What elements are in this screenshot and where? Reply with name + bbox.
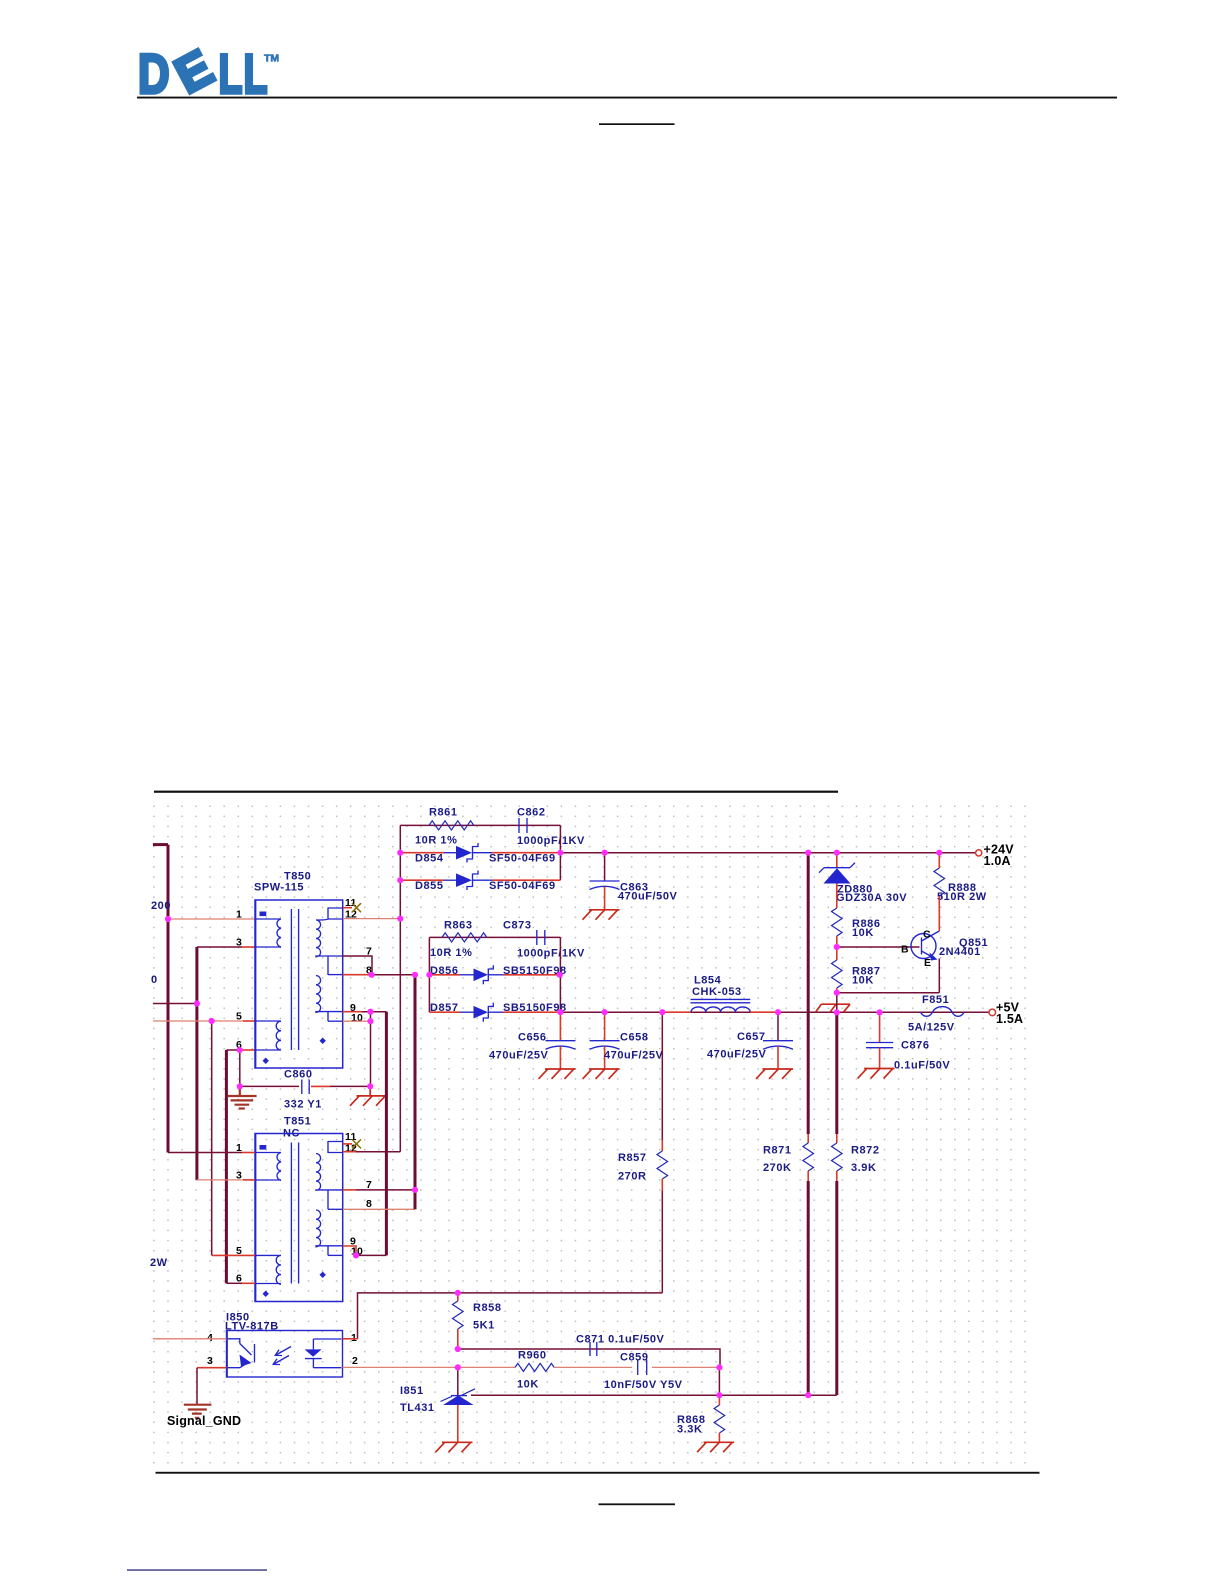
svg-text:1.0A: 1.0A xyxy=(984,854,1011,868)
svg-text:SF50-04F69: SF50-04F69 xyxy=(489,853,556,865)
zener ZD880 xyxy=(836,853,838,867)
diode D856 xyxy=(429,974,460,976)
ground slant at C860 right xyxy=(350,1086,386,1105)
ground parallelogram on 5V rail xyxy=(816,1004,851,1012)
schematic grid dots xyxy=(148,801,1036,1467)
capacitor C860 xyxy=(302,1080,309,1095)
wire snubber2 left vertical xyxy=(428,937,430,1012)
svg-text:CHK-053: CHK-053 xyxy=(692,986,742,998)
schematic bottom border xyxy=(156,1472,1040,1474)
wire vertical net x197 xyxy=(195,947,198,1180)
node D854 left xyxy=(397,850,403,856)
svg-text:I851: I851 xyxy=(400,1385,424,1397)
svg-text:2N4401: 2N4401 xyxy=(939,946,981,958)
wire vertical x239.8 to C860 xyxy=(239,1050,241,1086)
svg-text:SF50-04F69: SF50-04F69 xyxy=(489,880,556,892)
schematic top border xyxy=(154,791,838,793)
node R858 top xyxy=(455,1290,461,1296)
svg-text:R872: R872 xyxy=(851,1145,880,1157)
node rail C658 tap xyxy=(602,1009,608,1015)
node pin1 T850 junction xyxy=(165,916,171,922)
inductor L854 xyxy=(691,999,751,1002)
resistor R871 xyxy=(803,1143,814,1171)
svg-text:E: E xyxy=(166,39,222,104)
svg-text:F851: F851 xyxy=(922,994,949,1006)
ground slant C658 xyxy=(583,1069,620,1079)
wire snubber1 top row xyxy=(400,824,560,826)
capacitor C859 xyxy=(638,1360,647,1376)
node D855 left xyxy=(397,877,403,883)
diode D857 xyxy=(429,1011,460,1013)
svg-text:TM: TM xyxy=(264,53,279,65)
wire vertical x415 thick xyxy=(414,975,417,1209)
wire T850 pin1 row xyxy=(168,918,255,920)
ground slant C657 xyxy=(756,1069,793,1079)
svg-text:D855: D855 xyxy=(415,880,444,892)
svg-text:470uF/25V: 470uF/25V xyxy=(604,1050,663,1062)
svg-text:GDZ30A 30V: GDZ30A 30V xyxy=(836,892,907,904)
diode D855 xyxy=(400,879,444,881)
wire +5V rail xyxy=(560,1011,988,1013)
svg-text:510R 2W: 510R 2W xyxy=(937,891,987,903)
svg-text:B: B xyxy=(901,944,909,956)
svg-text:D856: D856 xyxy=(430,965,459,977)
node pin12 junction xyxy=(397,916,403,922)
wire T851 pin12 row xyxy=(343,1151,356,1153)
svg-text:D857: D857 xyxy=(430,1002,459,1014)
wire +24V rail xyxy=(560,852,975,854)
capacitor C871 xyxy=(590,1342,597,1356)
wire left entry mid xyxy=(153,1003,197,1005)
wire vertical net x211.7 xyxy=(211,1021,213,1255)
svg-text:470uF/25V: 470uF/25V xyxy=(707,1049,766,1061)
wire snubber2 right vertical xyxy=(559,937,561,1012)
capacitor C876 xyxy=(879,1012,881,1042)
wire I850 pin1 stub xyxy=(343,1338,358,1340)
svg-text:C860: C860 xyxy=(284,1069,313,1081)
Dell logo xyxy=(138,39,279,106)
footer link rule xyxy=(127,1569,267,1571)
header rule xyxy=(137,97,1117,99)
node C860 left junction xyxy=(237,1083,243,1089)
svg-text:C656: C656 xyxy=(518,1032,547,1044)
svg-text:10K: 10K xyxy=(852,975,874,987)
node pin9 junction xyxy=(367,1009,373,1015)
capacitor C863 xyxy=(604,853,606,881)
node C860 right junction xyxy=(367,1083,373,1089)
capacitor C658 xyxy=(604,1012,606,1040)
node R868 top xyxy=(716,1392,722,1398)
node rail24 ZD880 tap xyxy=(834,850,840,856)
wire T851 pin7 row xyxy=(343,1189,356,1191)
svg-text:2: 2 xyxy=(352,1355,358,1367)
ground slant C863 xyxy=(583,910,620,920)
node D856 right xyxy=(557,972,563,978)
svg-text:1000pF/1KV: 1000pF/1KV xyxy=(517,948,585,960)
svg-text:R861: R861 xyxy=(429,807,458,819)
svg-text:C862: C862 xyxy=(517,807,546,819)
node pin2/R960 xyxy=(455,1364,461,1370)
resistor R888 xyxy=(938,853,940,868)
wire T850 pin10 row xyxy=(343,1020,371,1022)
wire T850 pin6 row xyxy=(226,1049,240,1051)
resistor R868 xyxy=(718,1395,720,1405)
node pin5 junction xyxy=(209,1018,215,1024)
svg-text:3.3K: 3.3K xyxy=(677,1424,702,1436)
svg-text:470uF/25V: 470uF/25V xyxy=(489,1050,548,1062)
wire T850 pin7 bend xyxy=(343,956,372,975)
node D856 x415 xyxy=(412,972,418,978)
svg-text:R858: R858 xyxy=(473,1302,502,1314)
svg-text:3.9K: 3.9K xyxy=(851,1162,876,1174)
wire T850 pin3 row xyxy=(197,946,242,948)
node rail24 R871 tap xyxy=(805,850,811,856)
wire I850 pin4 row xyxy=(153,1338,227,1340)
wire x719 vertical xyxy=(718,1367,720,1395)
wire snubber1 right vertical xyxy=(559,825,561,880)
resistor R858 xyxy=(457,1293,459,1301)
node rail C876 tap xyxy=(877,1009,883,1015)
wire T851 pin10 row xyxy=(356,1254,386,1256)
svg-text:C871 0.1uF/50V: C871 0.1uF/50V xyxy=(576,1334,665,1346)
svg-text:1: 1 xyxy=(236,909,242,921)
svg-text:10R 1%: 10R 1% xyxy=(430,947,472,959)
resistor R960 xyxy=(515,1363,554,1371)
wire R960 row xyxy=(458,1366,515,1368)
ground slant TL431 xyxy=(436,1442,473,1452)
svg-text:1.5A: 1.5A xyxy=(996,1012,1023,1026)
node C863 tap xyxy=(602,850,608,856)
shunt regulator I851 TL431 xyxy=(457,1367,459,1395)
resistor R861 xyxy=(429,821,474,830)
svg-text:10R 1%: 10R 1% xyxy=(415,835,457,847)
svg-text:10K: 10K xyxy=(852,927,874,939)
svg-text:R863: R863 xyxy=(444,920,473,932)
svg-text:3: 3 xyxy=(236,937,242,949)
ground slant R868 xyxy=(697,1442,734,1452)
wire C860 row left xyxy=(240,1085,299,1087)
port +24V xyxy=(976,850,982,856)
wire vertical x808 R871 chain xyxy=(807,853,810,1134)
svg-text:270R: 270R xyxy=(618,1171,647,1183)
svg-text:10: 10 xyxy=(351,1012,363,1024)
no-connect X on T850 pin 11 xyxy=(343,907,352,909)
wire vertical x400.3 diode bus xyxy=(399,825,401,1151)
wire T850 pin9 bend xyxy=(343,1011,362,1013)
svg-text:0: 0 xyxy=(151,974,158,986)
node pin10 junction xyxy=(367,1018,373,1024)
wire feedback row xyxy=(358,1293,663,1339)
resistor R887 xyxy=(836,947,838,960)
wire T851 pin5 row xyxy=(212,1254,255,1256)
capacitor C862 xyxy=(519,818,527,833)
wire vertical net x168 xyxy=(167,845,170,1153)
svg-text:T851: T851 xyxy=(284,1116,311,1128)
svg-text:470uF/50V: 470uF/50V xyxy=(618,891,677,903)
capacitor C657 xyxy=(777,1012,779,1040)
node x197 mid junction xyxy=(194,1000,200,1006)
svg-text:10nF/50V Y5V: 10nF/50V Y5V xyxy=(604,1379,683,1391)
node base junction xyxy=(834,944,840,950)
resistor R886 xyxy=(832,908,843,936)
wire left entry top xyxy=(153,843,168,846)
svg-text:270K: 270K xyxy=(763,1162,792,1174)
fuse F851 xyxy=(921,1007,965,1017)
resistor R857 xyxy=(661,1012,663,1140)
wire T851 pin1 row xyxy=(168,1152,242,1154)
resistor R872 xyxy=(832,1143,843,1171)
wire T850 pin12 row xyxy=(343,918,401,920)
svg-text:R960: R960 xyxy=(518,1350,547,1362)
svg-text:C873: C873 xyxy=(503,920,532,932)
svg-text:4: 4 xyxy=(207,1332,213,1344)
node D856 bus xyxy=(426,972,432,978)
wire I850 pin3 bend xyxy=(197,1367,227,1369)
wire vertical net x226.4 xyxy=(225,1050,228,1283)
svg-text:Signal_GND: Signal_GND xyxy=(167,1414,241,1428)
wire vertical x386.4 thick xyxy=(385,1012,388,1256)
wire T850 pin8 row xyxy=(343,974,371,976)
capacitor C656 xyxy=(559,1012,561,1040)
wire vertical x370.8 pin10 to C860 xyxy=(370,1021,372,1086)
svg-text:C: C xyxy=(923,929,931,941)
svg-text:0.1uF/50V: 0.1uF/50V xyxy=(894,1060,950,1072)
wire emitter to R887 xyxy=(837,992,940,994)
node emitter junction xyxy=(834,990,840,996)
wire C860 row right xyxy=(311,1085,330,1087)
svg-text:3: 3 xyxy=(207,1355,213,1367)
wire snubber2 top row xyxy=(429,936,560,938)
svg-text:5A/125V: 5A/125V xyxy=(908,1022,955,1034)
svg-text:C657: C657 xyxy=(737,1031,766,1043)
node rail24 R888 tap xyxy=(936,850,942,856)
ground Signal_GND bars xyxy=(184,1405,212,1418)
node pin7-pin8 junction xyxy=(369,972,375,978)
node rail C657 tap xyxy=(775,1009,781,1015)
node T851 pin7 junction xyxy=(412,1187,418,1193)
node pin6 junction xyxy=(237,1047,243,1053)
wire left entry pin5 row xyxy=(153,1020,243,1022)
wire vertical x836 R872 chain xyxy=(835,1012,838,1134)
header short underline xyxy=(599,123,675,125)
wire C871 row xyxy=(458,1349,720,1367)
svg-text:1000pF/1KV: 1000pF/1KV xyxy=(517,835,585,847)
svg-text:200: 200 xyxy=(151,900,171,912)
footer short rule xyxy=(599,1503,676,1505)
node T851 pin10 junction xyxy=(353,1252,359,1258)
svg-text:L: L xyxy=(219,43,243,106)
svg-text:5: 5 xyxy=(236,1011,242,1023)
resistor R863 xyxy=(442,933,487,942)
svg-text:8: 8 xyxy=(366,1198,372,1210)
wire T851 pin8 row xyxy=(343,1208,415,1210)
wire T851 pin9 bend xyxy=(343,1246,356,1255)
node rail x836 xyxy=(834,1009,840,1015)
svg-text:D854: D854 xyxy=(415,853,444,865)
svg-text:TL431: TL431 xyxy=(400,1402,435,1414)
ground slant C656 xyxy=(539,1069,576,1079)
ground slant C876 xyxy=(858,1069,895,1079)
svg-text:SPW-115: SPW-115 xyxy=(254,882,304,894)
wire I850 pin2 row xyxy=(343,1366,458,1368)
svg-text:C658: C658 xyxy=(620,1032,649,1044)
ground earth left (bars) xyxy=(239,1086,241,1095)
diode D854 xyxy=(400,852,444,854)
node D854 right xyxy=(557,850,563,856)
svg-text:10K: 10K xyxy=(517,1379,539,1391)
node C859 right xyxy=(716,1364,722,1370)
no-connect X on T851 pin 11 xyxy=(343,1143,352,1145)
svg-text:2W: 2W xyxy=(150,1257,168,1269)
svg-text:R857: R857 xyxy=(618,1152,647,1164)
transistor Q851 xyxy=(911,934,936,959)
svg-text:L854: L854 xyxy=(694,975,722,987)
svg-text:R871: R871 xyxy=(763,1145,792,1157)
wire Q851 base xyxy=(837,946,920,948)
svg-text:C876: C876 xyxy=(901,1040,930,1052)
wire bottom feedback rail xyxy=(471,1394,837,1396)
node C871 left xyxy=(455,1346,461,1352)
node rail L854 left / R857 tap xyxy=(659,1009,665,1015)
svg-text:332 Y1: 332 Y1 xyxy=(284,1099,322,1111)
svg-text:D: D xyxy=(138,43,170,105)
node rail x560 xyxy=(557,1009,563,1015)
svg-text:E: E xyxy=(924,957,931,969)
wire T851 pin3 row xyxy=(197,1179,243,1181)
capacitor C873 xyxy=(537,930,545,945)
svg-text:5K1: 5K1 xyxy=(473,1320,495,1332)
port +5V xyxy=(989,1009,996,1016)
svg-text:SB5150F98: SB5150F98 xyxy=(503,1002,567,1014)
wire T851 pin6 row xyxy=(226,1282,242,1284)
svg-text:C859: C859 xyxy=(620,1352,649,1364)
node R871 bottom xyxy=(805,1392,811,1398)
